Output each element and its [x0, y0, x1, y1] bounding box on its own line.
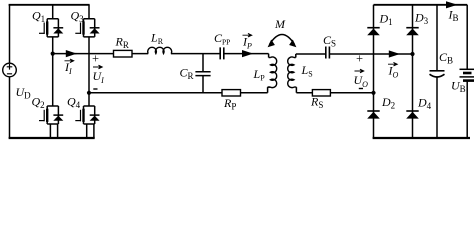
- wire rectifier bottom rail: [373, 137, 470, 139]
- wire inverter output top: [53, 53, 114, 55]
- current arrow I_B: [446, 1, 458, 8]
- resistor R_P: [222, 90, 241, 96]
- battery U_B: [460, 5, 474, 138]
- diode D3: [406, 28, 419, 36]
- label U1 vector: [93, 65, 105, 85]
- wire rectifier right leg: [412, 5, 414, 138]
- current arrow I_P: [242, 50, 253, 57]
- wire R_S to rectifier: [330, 92, 373, 94]
- transistor Q2: [39, 106, 63, 124]
- wire C_S to rectifier: [329, 53, 412, 55]
- wire L_S top to C_S: [296, 54, 326, 58]
- inductor L_R: [148, 47, 172, 53]
- label - (U1): [93, 88, 97, 90]
- current arrow I1: [66, 53, 77, 55]
- svg-text:M: M: [274, 17, 286, 31]
- current arrow I_O: [389, 50, 400, 57]
- wire primary bottom: [89, 87, 271, 93]
- wire leg2 segments: [87, 5, 94, 138]
- label I_O vector: [388, 62, 399, 79]
- node leg2 lower tap: [87, 91, 91, 95]
- node rectifier left leg bottom tap: [371, 91, 375, 95]
- wire R_R to L_R: [132, 53, 148, 55]
- resistor R_R: [114, 50, 133, 57]
- transistor Q1: [39, 19, 63, 37]
- label I_P vector: [242, 33, 252, 50]
- wire leg1 segments: [50, 5, 57, 138]
- diode D2: [367, 111, 380, 119]
- diode D1: [367, 28, 380, 36]
- wire rectifier top rail: [374, 4, 468, 6]
- inductor L_S: [288, 57, 297, 88]
- node rectifier right leg top tap: [410, 52, 414, 56]
- svg-text:+: +: [356, 52, 363, 66]
- voltage source U_D: [3, 5, 17, 138]
- wire top rail (bridge): [9, 4, 90, 6]
- capacitor C_PP: [220, 47, 224, 59]
- capacitor C_S: [326, 47, 330, 59]
- wire L_R to C_PP: [171, 53, 220, 55]
- capacitor C_R: [195, 54, 210, 93]
- wire rectifier left leg: [373, 5, 375, 138]
- label U_O vector: [354, 69, 369, 89]
- transistor Q3: [75, 19, 99, 37]
- wire L_S bottom: [296, 87, 312, 93]
- node leg1 midpoint: [51, 52, 55, 56]
- capacitor C_B: [430, 5, 445, 138]
- inductor L_P: [268, 57, 277, 88]
- resistor R_S: [312, 90, 330, 96]
- svg-text:+: +: [92, 52, 99, 66]
- label - (U_O): [359, 88, 363, 90]
- wire bottom rail (bridge): [9, 137, 95, 139]
- wire C_PP to L_P: [224, 54, 269, 58]
- mutual coupling M arrow: [268, 35, 297, 48]
- label I1 vector: [64, 59, 74, 76]
- transistor Q4: [75, 106, 99, 124]
- diode D4: [406, 111, 419, 119]
